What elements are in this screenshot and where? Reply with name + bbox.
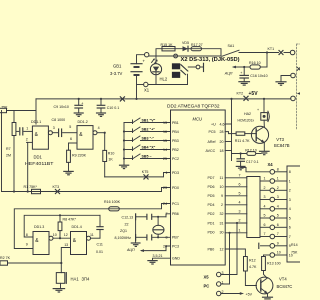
switch SB2 "+"	[123, 127, 171, 133]
svg-text:GB1: GB1	[113, 64, 122, 69]
svg-text:2: 2	[264, 186, 266, 190]
svg-text:ЗП4: ЗП4	[82, 276, 91, 281]
wire SB common rail	[123, 123, 125, 162]
svg-text:R1 75K*: R1 75K*	[24, 185, 38, 189]
svg-text:PC3: PC3	[172, 244, 179, 248]
capacitor at DD1.1 input	[16, 128, 32, 135]
svg-text:28: 28	[220, 130, 224, 134]
svg-text:SB3 "-": SB3 "-"	[142, 137, 155, 141]
svg-text:PC1: PC1	[172, 202, 179, 206]
wire X5 pin1 to PD0	[221, 233, 230, 284]
svg-text:PC5: PC5	[209, 130, 216, 134]
svg-text:7: 7	[289, 235, 291, 239]
ground VT3 emitter	[260, 151, 270, 154]
svg-text:9: 9	[221, 194, 223, 198]
svg-text:16: 16	[163, 130, 167, 134]
svg-text:DD2 ATMEGA8 TQFP32: DD2 ATMEGA8 TQFP32	[167, 103, 220, 108]
wire PD0 to cable	[225, 232, 247, 234]
svg-text:7: 7	[264, 232, 266, 236]
svg-text:1: 1	[289, 179, 291, 183]
svg-text:ARef: ARef	[208, 140, 216, 144]
svg-text:PD5: PD5	[208, 194, 215, 198]
wire X1 bottom to LED and jack bottom	[148, 84, 188, 86]
resistor R2 7K	[0, 256, 61, 265]
wire PD6 to cable	[225, 186, 247, 188]
wire battery plus lead to X1 top	[137, 55, 145, 64]
svg-text:X2 DS-313, (DJK-05D): X2 DS-313, (DJK-05D)	[181, 57, 240, 63]
svg-text:PD7: PD7	[208, 176, 215, 180]
LED HL2	[150, 56, 167, 85]
svg-text:R14: R14	[291, 243, 298, 247]
svg-text:10: 10	[277, 251, 281, 255]
svg-text:1: 1	[239, 229, 241, 233]
wire ARef stub	[225, 141, 231, 143]
svg-text:22: 22	[125, 222, 129, 226]
svg-text:PD1: PD1	[208, 221, 215, 225]
resistor R17 27	[191, 43, 203, 51]
svg-text:24: 24	[163, 202, 167, 206]
svg-text:14: 14	[163, 148, 167, 152]
cable crossover box	[247, 177, 260, 238]
wire DD1.3 out to DD1.4 in	[53, 237, 71, 239]
wire pin2 feedback down to KT3 line	[27, 142, 29, 191]
wire X1 bottom to battery vertical	[137, 84, 144, 86]
capacitor C17 0.1	[236, 152, 258, 169]
resistor R15 1K	[161, 43, 176, 51]
connector X3 edge circles with dashed boundary	[290, 44, 300, 130]
svg-text:BC847B: BC847B	[274, 143, 290, 148]
svg-text:2: 2	[221, 203, 223, 207]
crystal ZQ1 8,192MHz	[115, 217, 164, 240]
wire PC5 stub to R11	[225, 132, 231, 134]
svg-text:6: 6	[239, 183, 241, 187]
wire PD5 to cable	[225, 195, 247, 197]
svg-text:PD0: PD0	[172, 186, 179, 190]
X4 pin 1	[260, 177, 287, 184]
svg-text:3-3.7V: 3-3.7V	[110, 71, 123, 76]
svg-text:5: 5	[289, 216, 291, 220]
svg-text:VT3: VT3	[276, 137, 284, 142]
svg-text:ZQ1: ZQ1	[120, 229, 127, 233]
svg-text:5: 5	[277, 214, 279, 218]
switch SB5	[123, 154, 171, 160]
svg-text:12: 12	[220, 247, 224, 251]
svg-text:2: 2	[26, 137, 28, 141]
capacitor C8 1000	[52, 118, 78, 136]
svg-text:C17 0.1: C17 0.1	[246, 160, 259, 164]
svg-text:3: 3	[289, 198, 291, 202]
switch SB1 "V"	[124, 118, 171, 124]
svg-text:8: 8	[26, 233, 28, 237]
svg-text:4: 4	[239, 201, 241, 205]
resistor R8 47K*	[58, 214, 76, 239]
resistor R7 2M	[6, 111, 16, 192]
svg-text:1K: 1K	[108, 158, 113, 162]
wire X5 pin2 with arrow	[221, 292, 253, 296]
resistor R11 4.7K	[232, 132, 251, 143]
svg-text:PC: PC	[204, 283, 210, 288]
X4 pin 6	[260, 223, 287, 230]
capacitor C9 10x10	[54, 98, 84, 117]
svg-text:HCM1201x: HCM1201x	[238, 119, 255, 123]
svg-text:АЦП: АЦП	[224, 72, 233, 76]
resistor R10 1K	[103, 133, 115, 177]
ground VT4 emitter	[263, 297, 273, 299]
svg-text:DD1: DD1	[34, 154, 43, 159]
svg-text:3: 3	[53, 126, 55, 130]
svg-text:+: +	[240, 71, 242, 75]
svg-text:PD3: PD3	[172, 171, 179, 175]
svg-text:6: 6	[70, 137, 72, 141]
wire pin13 down to HA1	[61, 248, 70, 273]
svg-text:7: 7	[239, 174, 241, 178]
wire +5V vertical rail to MCU right side	[231, 99, 233, 161]
svg-text:C8 1000: C8 1000	[52, 118, 66, 122]
X4 pin 9	[259, 242, 287, 249]
svg-text:13: 13	[64, 243, 68, 247]
wire main top wire from X1 to SA1	[149, 55, 221, 57]
svg-text:32: 32	[220, 212, 224, 216]
svg-text:11: 11	[220, 176, 224, 180]
svg-text:KT5: KT5	[142, 170, 149, 174]
svg-text:X4: X4	[268, 162, 274, 167]
svg-text:VT4: VT4	[279, 276, 287, 281]
svg-text:10: 10	[220, 185, 224, 189]
svg-text:PB3: PB3	[172, 139, 179, 143]
svg-text:R10: R10	[108, 151, 115, 155]
svg-text:R2 7K: R2 7K	[0, 256, 11, 260]
wire PD1 to cable	[225, 222, 247, 224]
transistor VT3 BC847B	[245, 126, 290, 151]
svg-text:SA1: SA1	[228, 44, 235, 48]
svg-text:R9 220K: R9 220K	[72, 153, 87, 157]
node KT2 on +5V wire	[237, 92, 249, 101]
svg-text:12: 12	[64, 233, 68, 237]
svg-text:9: 9	[26, 242, 28, 246]
transistor VT4 BC847C	[256, 276, 292, 297]
svg-text:8: 8	[289, 170, 291, 174]
display module HG1 (off page)	[287, 166, 302, 262]
svg-text:5: 5	[264, 214, 266, 218]
X4 pin 5	[260, 214, 287, 221]
svg-text:PB0: PB0	[208, 247, 215, 251]
svg-text:АЦП: АЦП	[126, 248, 135, 252]
capacitor C12	[122, 214, 171, 227]
wire PD4 to cable	[225, 204, 247, 206]
wire +5V / supply rail across schematic	[36, 98, 291, 100]
svg-text:4: 4	[264, 205, 266, 209]
svg-text:C16 10x10: C16 10x10	[250, 74, 267, 78]
wire left vertical to KT3 line	[1, 111, 3, 192]
wire battery minus lead down to supply rail	[136, 76, 138, 99]
diode VD5	[182, 41, 189, 51]
svg-text:9: 9	[277, 242, 279, 246]
svg-text:C10 0.1: C10 0.1	[107, 106, 120, 110]
svg-text:X5: X5	[204, 274, 210, 279]
capacitor C10 0.1	[97, 98, 120, 117]
svg-text:SB2 "+": SB2 "+"	[142, 128, 156, 132]
wire PB0 to R12	[225, 249, 245, 257]
node KT5	[142, 170, 149, 179]
X4 pin 7	[260, 232, 287, 239]
svg-text:6: 6	[264, 223, 266, 227]
junction +5V to buzzer	[263, 98, 265, 100]
switch SB3 "-"	[123, 136, 171, 142]
svg-text:10: 10	[53, 233, 57, 237]
svg-text:2M: 2M	[6, 153, 11, 157]
svg-text:KT1: KT1	[268, 47, 275, 51]
svg-text:3: 3	[277, 195, 279, 199]
svg-text:+U: +U	[211, 122, 216, 126]
resistor R9 220K	[64, 150, 87, 175]
junction top wire to R16	[266, 51, 268, 53]
svg-text:8: 8	[166, 236, 168, 240]
svg-text:PB6: PB6	[172, 212, 179, 216]
svg-text:1: 1	[277, 177, 279, 181]
node X1 battery connector terminals	[144, 53, 150, 93]
capacitor C16 10x10	[239, 66, 268, 85]
svg-text:6: 6	[289, 226, 291, 230]
svg-text:0.01: 0.01	[96, 250, 103, 254]
resistor R13 100	[262, 255, 281, 278]
X4 pin 4	[260, 205, 287, 212]
svg-text:R13 100: R13 100	[267, 261, 281, 265]
svg-text:PD6: PD6	[208, 185, 215, 189]
svg-text:8: 8	[277, 168, 279, 172]
svg-text:PC2: PC2	[172, 157, 179, 161]
svg-text:HEF4011BT: HEF4011BT	[25, 161, 54, 166]
svg-text:PB7: PB7	[172, 236, 179, 240]
svg-text:HA2: HA2	[244, 112, 251, 116]
svg-text:4.7K: 4.7K	[249, 265, 257, 269]
svg-text:4: 4	[98, 126, 100, 130]
X4 pin 8	[241, 168, 287, 175]
svg-text:C11: C11	[97, 242, 103, 246]
svg-text:2: 2	[289, 189, 291, 193]
resistor R6 75K	[0, 105, 8, 112]
wire down from KT1 line to R16 line	[266, 53, 268, 68]
capacitor C11 0.01	[91, 215, 104, 254]
svg-text:PB1: PB1	[172, 121, 179, 125]
svg-text:7: 7	[277, 232, 279, 236]
svg-text:+: +	[81, 101, 83, 105]
svg-text:C12,13: C12,13	[122, 215, 134, 219]
svg-text:R12: R12	[249, 258, 256, 262]
svg-text:DD1.3: DD1.3	[34, 225, 44, 229]
svg-text:26: 26	[163, 244, 167, 248]
svg-text:AVCC: AVCC	[206, 149, 216, 153]
node KT3	[53, 185, 60, 194]
wire PD2 to cable	[225, 213, 247, 215]
ground at X3 pin 2	[276, 76, 291, 86]
svg-text:8,192MHz: 8,192MHz	[115, 236, 132, 240]
svg-text:75K: 75K	[291, 251, 298, 255]
wire +U stub	[225, 123, 231, 125]
svg-text:GND: GND	[172, 257, 180, 261]
X4 pin 10	[264, 251, 288, 258]
wire DD1.2 output to R10	[97, 132, 105, 134]
MCU left pin labels	[163, 121, 180, 261]
svg-text:PB2: PB2	[172, 148, 179, 152]
MCU DD2 ATMEGA8 TQFP32	[167, 103, 225, 265]
svg-text:2: 2	[277, 186, 279, 190]
svg-text:PD2: PD2	[208, 212, 215, 216]
svg-text:DD1.1: DD1.1	[31, 120, 41, 124]
svg-text:15: 15	[163, 139, 167, 143]
svg-text:31: 31	[220, 221, 224, 225]
MCU right pin labels	[206, 122, 225, 251]
svg-text:4,6: 4,6	[220, 122, 225, 126]
svg-text:3,5,21: 3,5,21	[153, 254, 163, 258]
switch SB4 "X"	[123, 145, 171, 151]
junction +5V to MCU rail	[230, 98, 232, 100]
resistor R16 100K	[104, 200, 121, 211]
svg-text:4: 4	[277, 205, 279, 209]
wire feedback line pin9 to R16 100K to MCU PC1	[14, 204, 170, 249]
svg-text:18: 18	[220, 149, 224, 153]
svg-text:13: 13	[163, 121, 167, 125]
svg-text:HL2: HL2	[160, 77, 168, 82]
wire branch loop for R15/VD5/R17	[156, 49, 221, 56]
svg-text:3: 3	[239, 210, 241, 214]
svg-text:C9 10x10: C9 10x10	[54, 105, 69, 109]
node ADC arrow	[224, 66, 244, 76]
svg-text:VD5: VD5	[182, 41, 189, 45]
svg-text:7: 7	[166, 212, 168, 216]
svg-text:30: 30	[220, 230, 224, 234]
junction battery rail	[135, 98, 137, 100]
svg-text:1: 1	[26, 126, 28, 130]
svg-text:R11 4.7K: R11 4.7K	[235, 139, 250, 143]
svg-text:SB1 "V": SB1 "V"	[142, 119, 156, 123]
node KT1	[268, 47, 291, 55]
capacitor C13	[136, 235, 171, 241]
svg-text:3: 3	[264, 195, 266, 199]
battery GB1	[110, 59, 146, 77]
svg-text:KT3: KT3	[53, 185, 60, 189]
svg-text:PB4: PB4	[172, 130, 179, 134]
gate DD1.1 HEF4011BT	[25, 120, 55, 166]
wire X5 pin3 to PD1	[221, 223, 237, 275]
svg-text:KT2: KT2	[237, 92, 244, 96]
svg-text:R7: R7	[6, 147, 11, 151]
resistor R12 4.7K	[244, 257, 257, 286]
gate DD1.2	[69, 120, 99, 149]
svg-text:1: 1	[166, 171, 168, 175]
buzzer HA2 HCM1201x	[238, 99, 270, 127]
svg-text:PD4: PD4	[208, 203, 215, 207]
svg-text:5: 5	[69, 125, 71, 129]
svg-text:SB5 ~: SB5 ~	[142, 155, 152, 159]
node ADC arrow to PC3	[126, 246, 171, 252]
svg-text:5: 5	[239, 192, 241, 196]
wire KT5 line from R10 to MCU PD3	[105, 173, 171, 177]
svg-text:6: 6	[277, 223, 279, 227]
gate DD1.4	[64, 225, 94, 255]
wire probe input line	[7, 110, 37, 112]
connector X5 PC	[204, 271, 224, 296]
svg-text:+5V: +5V	[249, 91, 259, 97]
wire pin6 to R9	[69, 143, 78, 150]
svg-text:11: 11	[90, 233, 94, 237]
switch SA1	[222, 44, 279, 56]
svg-text:+5V: +5V	[246, 292, 253, 296]
wire rail left end drop to DD1	[35, 99, 37, 124]
svg-text:R16 100K: R16 100K	[104, 200, 121, 204]
svg-text:BC847C: BC847C	[277, 284, 293, 289]
svg-text:PD0: PD0	[208, 230, 215, 234]
wire oscillator top line pin8	[24, 215, 100, 237]
wire AVCC stub	[225, 150, 231, 152]
resistor R16 10	[244, 61, 267, 69]
svg-text:SB4 "X": SB4 "X"	[142, 146, 156, 150]
svg-text:DD1.2: DD1.2	[78, 120, 88, 124]
wire PD7 to cable	[225, 177, 247, 179]
svg-text:+: +	[257, 108, 259, 112]
svg-text:1: 1	[264, 177, 266, 181]
ground crystal rail	[131, 214, 140, 247]
gate DD1.3	[26, 225, 57, 255]
svg-text:20: 20	[220, 140, 224, 144]
ground SB rail	[120, 162, 129, 169]
node X on rail (KT4)	[120, 97, 124, 101]
svg-text:4: 4	[289, 207, 291, 211]
svg-text:X1: X1	[144, 88, 150, 93]
wire KT3 line to MCU PD0	[2, 188, 171, 192]
buzzer HA1 ZP4	[53, 273, 90, 292]
ground MCU GND pin	[148, 254, 171, 264]
svg-text:DD1.4: DD1.4	[72, 225, 82, 229]
svg-text:23: 23	[163, 186, 167, 190]
resistor R12 10 (AVCC filter)	[232, 149, 262, 156]
resistor R1 75K*	[24, 185, 41, 194]
svg-text:2: 2	[239, 219, 241, 223]
X4 pin 2	[260, 186, 287, 193]
X4 pin 3	[260, 195, 287, 202]
svg-text:25: 25	[163, 157, 167, 161]
svg-text:R8 47K*: R8 47K*	[63, 218, 77, 222]
connector X2 DS-313 barrel jack	[172, 54, 240, 84]
svg-text:MCU: MCU	[193, 117, 204, 122]
resistor R14 75K	[291, 243, 298, 255]
svg-text:HA1: HA1	[71, 276, 80, 281]
